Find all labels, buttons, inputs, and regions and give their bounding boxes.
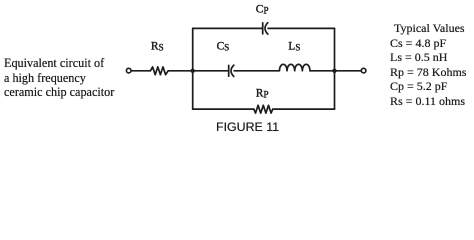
svg-text:RP: RP	[256, 87, 269, 99]
capacitor CS	[229, 65, 234, 76]
wire (bottom rail, right of RP)	[273, 108, 335, 110]
wire (middle rail, LS to right node)	[310, 70, 335, 72]
wire (right vertical branch)	[334, 28, 336, 109]
wire (left terminal to RS)	[131, 70, 150, 72]
caption: equivalent circuit description	[4, 56, 114, 100]
wire (top rail, right of CP)	[268, 27, 334, 29]
node (right junction)	[332, 69, 336, 73]
figure caption FIGURE 11	[216, 120, 279, 134]
circuit schematic: equivalent circuit of a high frequency ceramic chip capacitor	[0, 0, 474, 137]
capacitor CP	[263, 23, 268, 34]
wire (RS to left node)	[168, 70, 193, 72]
svg-text:LS: LS	[288, 40, 300, 52]
node (left junction)	[191, 69, 195, 73]
terminal (right output)	[361, 68, 366, 73]
wire (middle rail, CS to LS)	[234, 70, 279, 72]
wire (left vertical branch)	[192, 28, 194, 109]
wire (middle rail, left node to CS)	[193, 70, 229, 72]
svg-text:CS: CS	[217, 40, 230, 52]
value labels: typical values list	[390, 21, 466, 108]
resistor RP	[254, 105, 273, 113]
svg-text:RS: RS	[151, 40, 164, 52]
terminal (left input)	[126, 68, 131, 73]
wire (bottom rail, left of RP)	[193, 108, 254, 110]
resistor RS	[150, 67, 168, 75]
svg-text:CP: CP	[256, 3, 269, 15]
wire (right node to right terminal)	[335, 70, 362, 72]
inductor LS	[279, 64, 310, 71]
wire (top rail, left of CP)	[193, 27, 263, 29]
